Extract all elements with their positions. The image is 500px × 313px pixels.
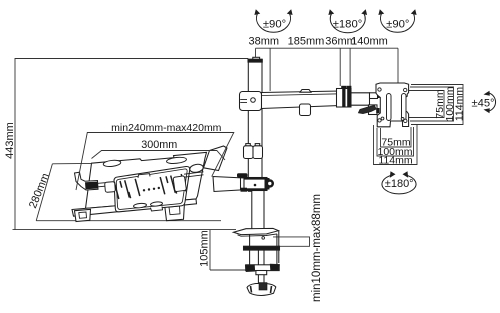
tray platform top tab: [138, 174, 150, 178]
clamp pad: [246, 265, 280, 271]
tray left rails: [98, 182, 113, 187]
VESA bottom dim 75mm lines: [381, 127, 412, 147]
VESA plate: [376, 83, 409, 127]
elbow joint: [337, 89, 352, 108]
svg-text:185mm: 185mm: [288, 35, 325, 47]
tray platform outer: [114, 166, 190, 211]
tray plate: [86, 152, 207, 208]
arm2: [351, 93, 370, 105]
clamp screw shaft: [258, 250, 264, 283]
clamp top plate: [234, 228, 279, 234]
svg-text:±90°: ±90°: [386, 19, 409, 31]
svg-text:min10mm-max88mm: min10mm-max88mm: [311, 194, 323, 302]
arm1 top tab: [300, 90, 311, 93]
svg-text:min240mm-max420mm: min240mm-max420mm: [111, 122, 222, 134]
tray left clip pad: [85, 182, 98, 190]
tray arm collar: [244, 178, 267, 191]
dimension line min240mm-max420mm: [76, 133, 234, 191]
clamp body bolt: [262, 237, 265, 240]
tray corner pad right: [189, 163, 204, 173]
svg-text:443mm: 443mm: [4, 122, 16, 159]
tray bottom rail: [72, 199, 197, 216]
bracket min10mm-max88mm: [273, 237, 310, 246]
hinge knob tip: [376, 108, 379, 113]
elbow bar right: [347, 89, 350, 107]
tray riser bracket: [204, 146, 228, 171]
dark parts of arm: [341, 84, 405, 114]
svg-text:±180°: ±180°: [385, 178, 414, 190]
tray box left edge (280mm): [36, 164, 52, 221]
VESA slot left: [387, 94, 392, 121]
collar bolt: [251, 98, 256, 103]
clamp knob marks: [251, 286, 272, 293]
svg-text:±180°: ±180°: [333, 19, 363, 31]
desk surface line: [13, 229, 237, 231]
svg-text:±45°: ±45°: [471, 97, 494, 109]
rotation ellipse +-180 under VESA: [382, 175, 416, 194]
clamp jaw dark band: [244, 246, 280, 250]
top dimension line: [256, 47, 399, 49]
svg-text:114mm: 114mm: [378, 155, 412, 167]
tray arm bolt cap: [237, 173, 248, 177]
arm1: [262, 91, 341, 109]
pole cable clip: [246, 144, 251, 147]
VESA right bracket 75mm: [409, 91, 444, 118]
tray box top edge: [52, 162, 212, 164]
dimension 105mm bottom tick: [210, 269, 277, 271]
clamp pad wing screw right: [270, 264, 279, 270]
tray left clip: [75, 172, 99, 190]
tray arm collar bolt: [254, 184, 257, 187]
tick 140mm right / VESA stem: [397, 48, 399, 84]
tray arm collar bands: [244, 177, 268, 179]
clamp top plate thickness: [238, 234, 278, 236]
pole top cap dark: [248, 59, 262, 62]
svg-text:114mm: 114mm: [453, 87, 465, 121]
clamp knob hub: [259, 283, 267, 290]
tray foot left: [75, 209, 91, 221]
tray right rails: [184, 172, 204, 177]
pole lower tube: [252, 191, 264, 230]
tray left slide block: [105, 182, 116, 193]
svg-text:105mm: 105mm: [198, 230, 210, 267]
VESA mount bump: [392, 84, 406, 88]
elbow bolt caps: [341, 86, 346, 89]
VESA screw holes: [378, 88, 407, 123]
elbow bar left: [342, 89, 345, 107]
VESA slot right: [402, 94, 407, 121]
VESA hinge screw: [370, 93, 378, 99]
VESA right bracket 100mm: [410, 87, 454, 121]
tray arm: [213, 177, 267, 192]
VESA bottom dim 100mm lines: [377, 127, 414, 156]
dimension 443mm bracket: [15, 59, 248, 230]
rotation arc +-45 right: [488, 93, 496, 112]
tray box bottom edge: [36, 220, 221, 222]
tick 36mm left: [339, 48, 341, 86]
VESA right bracket 114mm: [411, 85, 463, 125]
svg-text:300mm: 300mm: [141, 139, 177, 151]
arm collar upper: [240, 92, 262, 111]
tray arm collar knob: [265, 178, 270, 190]
tick 36mm right: [349, 48, 351, 86]
clamp pad wing screw left: [246, 265, 255, 272]
tray vent slats: [114, 174, 186, 199]
tick 38mm right: [269, 48, 271, 91]
clamp shaft collar: [256, 271, 267, 275]
svg-text:±90°: ±90°: [263, 19, 286, 31]
tray vent dots: [143, 187, 160, 192]
clamp body outer right: [278, 231, 280, 263]
dimension line 300mm: [92, 151, 226, 161]
VESA bottom dim 114mm lines: [374, 125, 418, 165]
pole: [248, 59, 262, 191]
tray platform bottom tab: [151, 206, 163, 211]
clamp knob: [247, 284, 276, 296]
rotation arc +-90 left: [257, 14, 415, 33]
arm1 inner line: [262, 94, 341, 96]
arm1 cable clip: [300, 104, 311, 116]
dimension 105mm vertical: [209, 230, 211, 270]
VESA hinge lever: [359, 106, 377, 114]
VESA hinge knob: [369, 105, 378, 115]
pole top nub: [253, 57, 260, 59]
clamp body left side: [249, 234, 251, 265]
hinge screw tip: [377, 93, 380, 98]
svg-text:140mm: 140mm: [351, 35, 388, 47]
tray platform inner: [116, 169, 187, 209]
tray foot right: [165, 202, 185, 221]
tray right slide block: [173, 176, 186, 192]
tray oval holes: [103, 156, 187, 208]
svg-text:38mm: 38mm: [249, 35, 280, 47]
tick 38mm left: [255, 48, 257, 59]
clamp body right side: [276, 234, 278, 266]
